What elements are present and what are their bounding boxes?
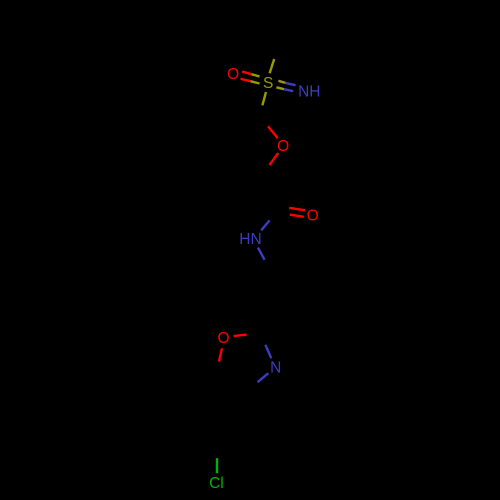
bond N2-C(amide) blue half	[261, 220, 269, 230]
svg-text:O: O	[217, 330, 229, 347]
bond N3-C3a blue half	[258, 373, 269, 382]
bond S1-C1 yellow half	[262, 92, 266, 105]
svg-text:HN: HN	[239, 231, 261, 248]
svg-text:S: S	[263, 75, 273, 92]
bond S1=O1 upper line yellow half	[252, 74, 260, 76]
bond C1-O2 red half	[268, 126, 278, 138]
bond N2-CH2 blue half	[258, 248, 265, 260]
bond C=O3 upper line red half	[289, 208, 305, 211]
bond S1=N1 lower line blue half	[284, 89, 293, 91]
svg-text:O: O	[277, 138, 289, 155]
bond O4-C2b red half	[234, 335, 247, 337]
bond C=O3 lower line red half	[290, 215, 304, 217]
svg-text:N: N	[270, 360, 281, 377]
bond S1=N1 upper line yellow half	[278, 81, 285, 83]
bond C2b=N3 blue half	[265, 345, 271, 359]
bond Cl1-C5 green half	[216, 458, 218, 473]
bond S1=N1 lower line yellow half	[276, 87, 284, 89]
bond S1=O1 lower line yellow half	[251, 81, 260, 83]
bond S1=O1 upper line red half	[242, 72, 252, 75]
svg-text:NH: NH	[298, 83, 320, 100]
bond S1-CH3 yellow half	[270, 59, 275, 73]
svg-text:O: O	[307, 207, 319, 224]
bond O4-C7a red half	[219, 348, 222, 361]
bond O2-C2p red half	[270, 153, 279, 165]
bond S1=O1 lower line red half	[241, 79, 251, 81]
svg-text:O: O	[227, 66, 239, 83]
svg-text:Cl: Cl	[209, 475, 224, 492]
bond S1=N1 upper line blue half	[286, 83, 296, 85]
